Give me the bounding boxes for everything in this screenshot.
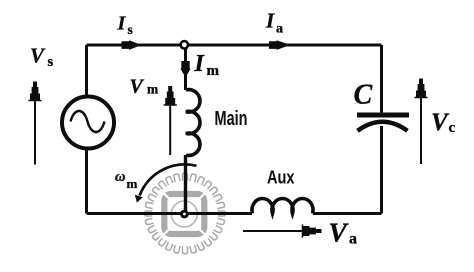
svg-text:V: V	[329, 217, 350, 248]
svg-text:V: V	[130, 76, 145, 98]
node B rotor junction	[180, 210, 189, 219]
arrow Ia	[269, 40, 291, 50]
ring corner notches	[160, 190, 208, 239]
28 radial stator slots	[145, 173, 225, 253]
svg-text:a: a	[276, 22, 283, 37]
svg-text:Aux: Aux	[267, 168, 295, 188]
arrow Vm	[164, 86, 177, 106]
wire main branch upper	[184, 45, 187, 90]
svg-text:s: s	[128, 22, 133, 37]
svg-text:I: I	[194, 51, 206, 77]
wire left vertical lower	[85, 149, 88, 214]
inductor Main L1	[186, 90, 200, 156]
wire bottom right segment	[313, 212, 382, 215]
svg-text:s: s	[48, 54, 54, 70]
capacitor C1 plates	[357, 113, 409, 118]
node A top junction	[181, 41, 188, 48]
svg-text:I: I	[117, 13, 127, 35]
svg-text:Main: Main	[215, 108, 248, 130]
motor watermark M1	[145, 173, 225, 253]
svg-text:m: m	[127, 176, 138, 191]
arrow Va	[302, 224, 322, 237]
wire right vertical lower	[380, 126, 383, 214]
wire left vertical upper	[85, 45, 88, 96]
wire top: source to capacitor	[87, 44, 382, 47]
svg-text:I: I	[265, 8, 275, 32]
arrow Vs	[28, 82, 41, 102]
svg-text:C: C	[354, 80, 373, 111]
stator square ring	[164, 194, 204, 234]
wire main branch lower	[184, 155, 187, 214]
arrow Vc	[414, 79, 427, 99]
svg-text:a: a	[349, 231, 357, 248]
wire right vertical upper	[380, 45, 383, 113]
svg-text:V: V	[30, 44, 46, 68]
svg-text:c: c	[449, 120, 456, 136]
svg-text:ω: ω	[115, 169, 126, 185]
rotor circle	[171, 201, 197, 227]
svg-text:V: V	[431, 109, 450, 136]
arrow Im	[180, 61, 190, 78]
source V1 AC	[62, 97, 114, 149]
inductor Aux L2	[252, 198, 313, 213]
svg-text:m: m	[207, 63, 220, 79]
svg-text:m: m	[147, 82, 159, 97]
wire bottom left segment	[87, 212, 253, 215]
sine symbol	[71, 111, 105, 132]
arrow Is	[122, 40, 142, 50]
arrow omega arc	[140, 164, 197, 195]
